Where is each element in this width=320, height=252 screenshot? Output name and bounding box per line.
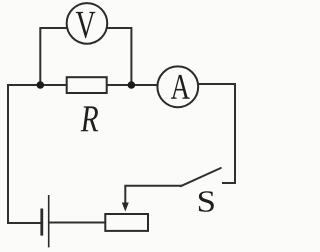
switch S lever bbox=[181, 168, 221, 186]
wire voltmeter right lead bbox=[87, 28, 131, 85]
voltmeter label V bbox=[76, 12, 96, 38]
rheostat box bbox=[105, 214, 148, 231]
switch label S bbox=[199, 191, 214, 212]
ammeter A1 circle bbox=[157, 66, 198, 107]
wire ammeter right to switch fixed contact bbox=[196, 84, 235, 183]
battery negative plate (short) bbox=[40, 209, 43, 236]
wire battery left lead bbox=[8, 222, 41, 224]
wire main bus left rail to ammeter bbox=[8, 85, 160, 223]
junction node right bbox=[128, 81, 136, 89]
junction node left bbox=[37, 81, 45, 89]
battery positive plate (long) bbox=[48, 195, 50, 247]
wire voltmeter left lead bbox=[40, 28, 87, 85]
wire battery to rheostat bbox=[49, 222, 104, 224]
rheostat wiper arrowhead bbox=[122, 203, 129, 212]
wire switch pivot to rheostat wiper bbox=[125, 186, 180, 205]
ammeter label A bbox=[171, 75, 190, 99]
voltmeter U1 circle bbox=[67, 3, 108, 44]
resistor label R bbox=[81, 106, 99, 131]
resistor R box bbox=[67, 77, 107, 93]
